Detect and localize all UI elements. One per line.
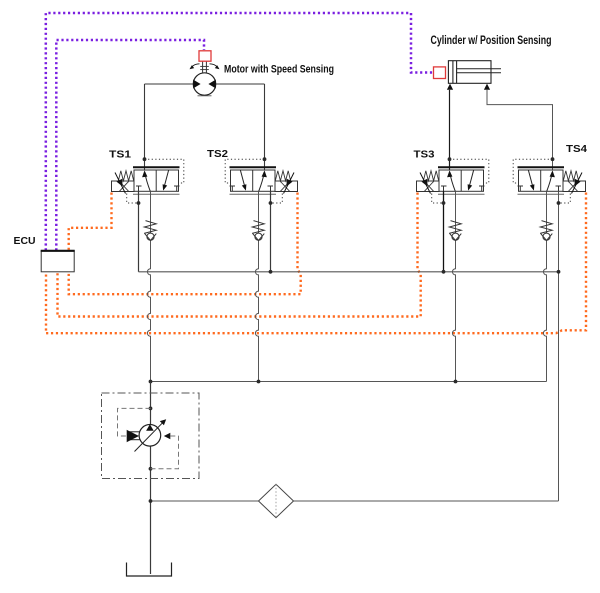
wire: return bus (valves to tank line) [139, 271, 559, 273]
label: TS4 [566, 143, 587, 155]
motor M1 [193, 73, 216, 96]
check valve with spring (TS3) [449, 221, 461, 241]
svg-text:Motor with Speed Sensing: Motor with Speed Sensing [224, 64, 334, 76]
wire: TS1 service port down to return bus [138, 191, 140, 271]
svg-text:TS1: TS1 [109, 149, 131, 161]
node: pump line junction [149, 380, 153, 384]
pump control pilot (right) [164, 433, 171, 440]
node: TS3 on return bus [442, 270, 446, 274]
wire: pump pressure bus [151, 381, 547, 383]
wire: cylinder cap side to TS3 top port [449, 90, 451, 170]
wire: TS4 supply line (with crossover jumps) [543, 191, 546, 381]
wire: TS3 service port down to return bus [443, 191, 445, 271]
node: TS2 on return bus [269, 270, 273, 274]
node: TS2 top port junction [263, 157, 267, 161]
wire: purple signal ECU to cylinder position sensor [46, 13, 433, 251]
node: TS4 top port junction [551, 157, 555, 161]
speed sensor on motor shaft [190, 61, 220, 73]
node: TS3 supply junction [454, 380, 458, 384]
cylinder C1 [448, 61, 501, 84]
wire: orange signal TS2 solenoid to ECU [69, 193, 301, 295]
wire: TS2 service port down to return bus [270, 191, 272, 271]
node: TS2 supply junction [257, 380, 261, 384]
label: Motor with Speed Sensing [224, 64, 334, 76]
pump control line (dashed, left loop) [118, 408, 151, 436]
wire: orange signal TS3 solenoid to ECU [58, 193, 421, 317]
wire: TS3 supply line (with crossover jumps) [452, 191, 455, 381]
label: Cylinder w/ Position Sensing [431, 33, 552, 47]
svg-text:TS3: TS3 [414, 149, 435, 161]
sensor box (red) on motor [199, 51, 211, 61]
svg-text:ECU: ECU [14, 235, 36, 247]
wire: TS4 service port down to tank return line [558, 191, 560, 501]
wire: motor to TS2 top port [216, 84, 265, 170]
node: TS1 pilot tap [137, 201, 141, 205]
node: TS2 pilot tap [269, 201, 273, 205]
wire: orange signal TS4 solenoid to ECU [46, 193, 586, 334]
cylinder port arrow (rod side) [484, 84, 490, 90]
wire: pump suction / tank line [150, 446, 152, 574]
node: filter branch junction [149, 499, 153, 503]
pump control line (dashed, right loop) [151, 436, 179, 469]
node: TS4 pilot tap [557, 201, 561, 205]
node: TS4 on return bus [557, 270, 561, 274]
check valve with spring (TS1) [144, 221, 156, 241]
tank T1 [127, 563, 172, 577]
node: TS3 pilot tap [442, 201, 446, 205]
label: TS3 [414, 149, 435, 161]
label: ECU [14, 235, 36, 247]
wire: tank return to filter [151, 500, 559, 502]
wire: purple signal ECU to motor speed sensor [56, 40, 204, 251]
cylinder port arrow (cap side) [447, 84, 453, 90]
svg-text:TS2: TS2 [207, 148, 228, 160]
valve TS2 (proportional solenoid valve) [225, 159, 297, 203]
node: pump control tap (bottom) [149, 467, 153, 471]
sensor box (red) on cylinder [434, 67, 446, 79]
label: TS2 [207, 148, 228, 160]
node: TS1 top port junction [143, 157, 147, 161]
wire: cylinder rod side to TS4 top port [487, 90, 553, 170]
wire: pump output line [150, 382, 152, 425]
pump P1 (variable displacement) [135, 419, 167, 451]
svg-text:TS4: TS4 [566, 143, 587, 155]
node: pump control tap (top) [149, 407, 153, 411]
check valve with spring (TS4) [540, 221, 552, 241]
node: TS3 top port junction [448, 157, 452, 161]
enclosure (dash-dot) around pump [102, 393, 200, 479]
label: TS1 [109, 149, 131, 161]
wire: TS1 supply line (with crossover jumps) [147, 191, 150, 381]
valve TS1 (proportional solenoid valve) [112, 159, 184, 203]
svg-text:Cylinder w/ Position Sensing: Cylinder w/ Position Sensing [431, 33, 552, 47]
wire: TS2 supply line (with crossover jumps) [255, 191, 258, 381]
valve TS4 (proportional solenoid valve) [513, 159, 585, 203]
check valve with spring (TS2) [252, 221, 264, 241]
filter F1 [259, 484, 294, 517]
ECU controller box [41, 251, 75, 272]
valve TS3 (proportional solenoid valve) [417, 159, 489, 203]
wire: TS1 top port to motor [145, 84, 194, 170]
pump compensator actuator (left) [127, 430, 140, 442]
wire: orange signal TS1 solenoid to ECU [69, 193, 112, 251]
